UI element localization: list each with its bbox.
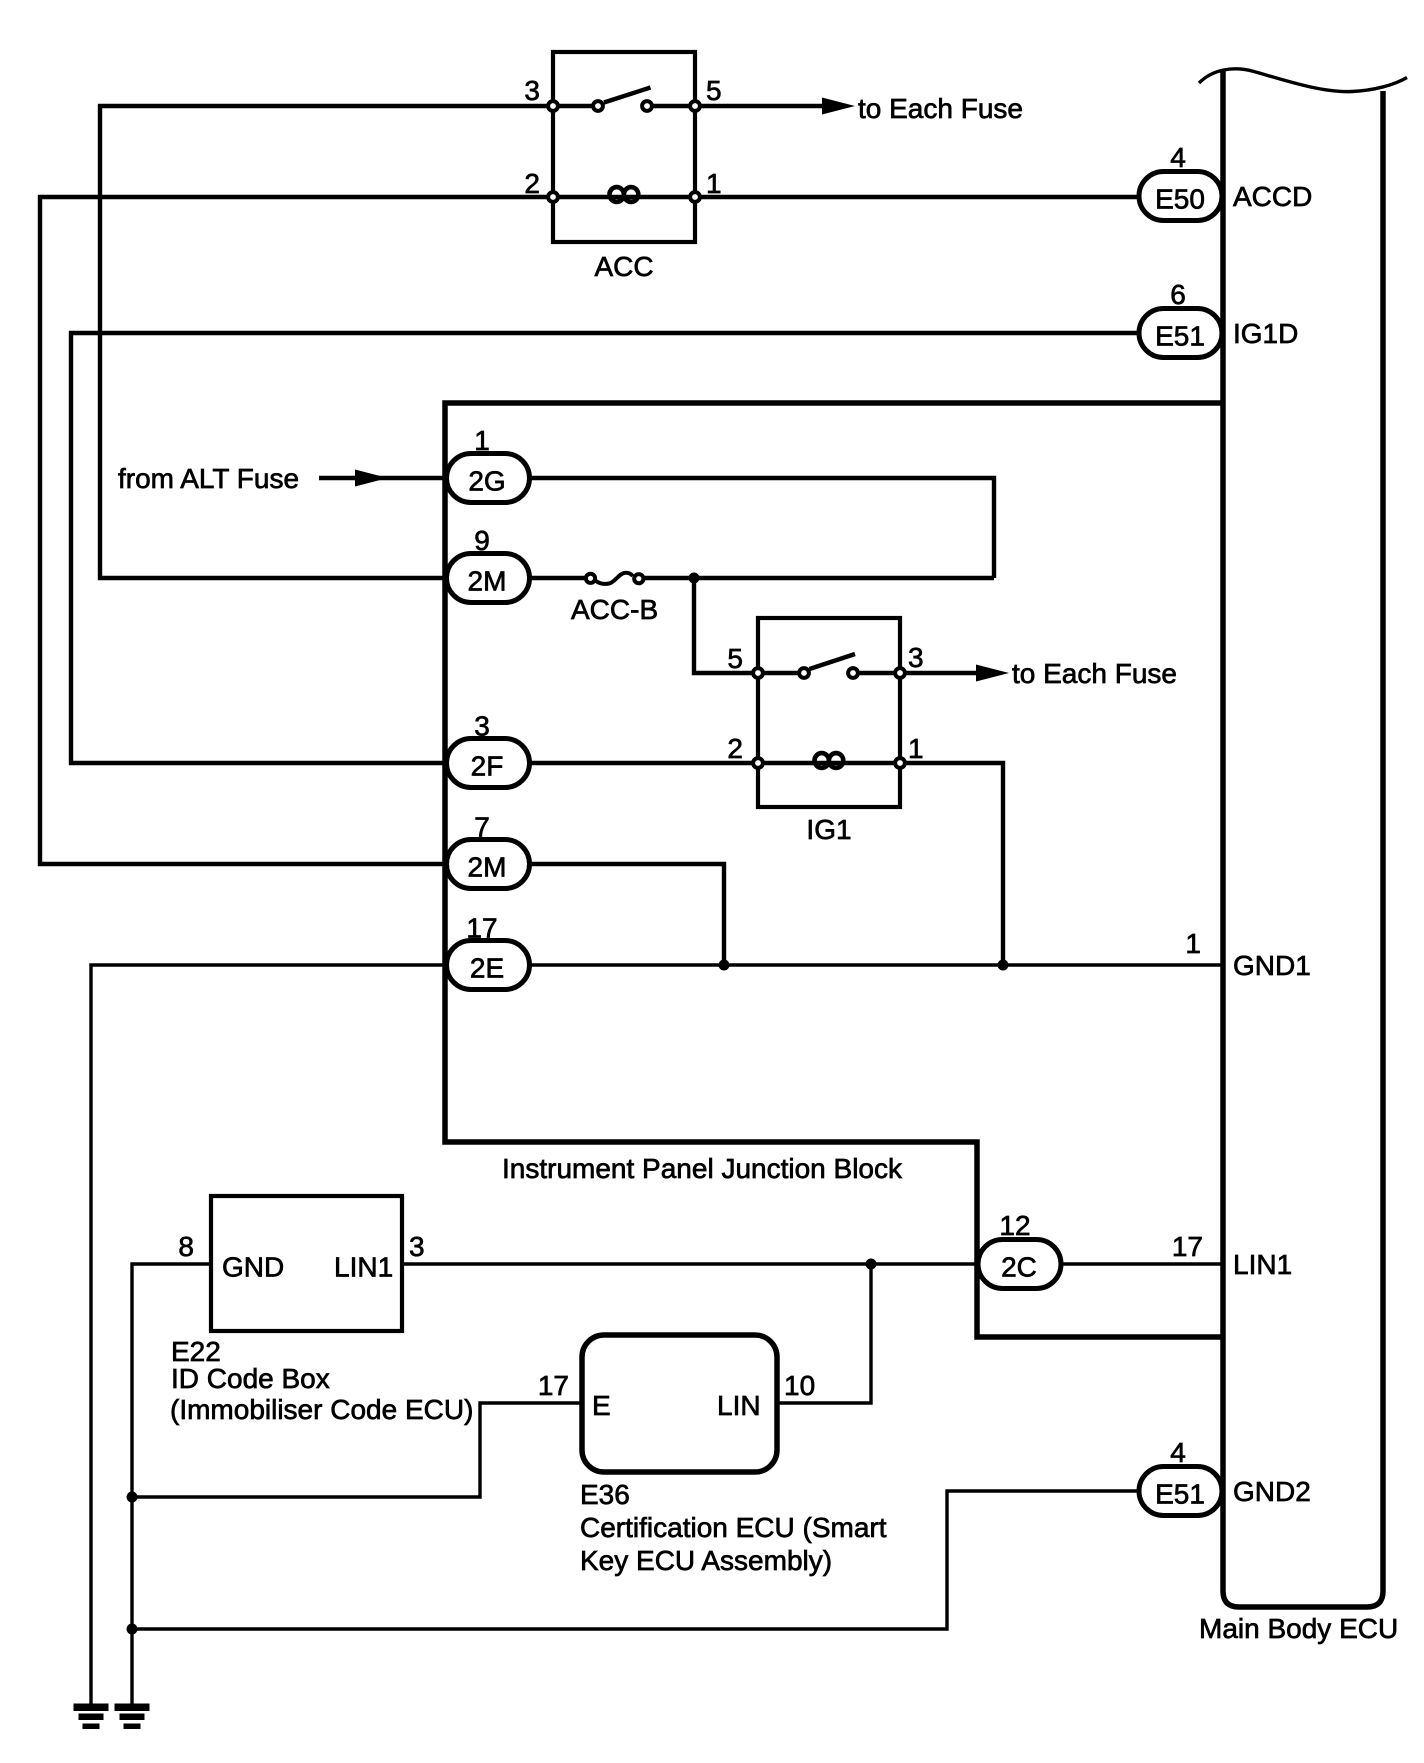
wire from ALT Fuse arrow line (319, 476, 449, 480)
svg-text:Certification ECU (Smart: Certification ECU (Smart (580, 1512, 887, 1543)
svg-text:10: 10 (784, 1370, 815, 1401)
connector 2C (978, 1240, 1061, 1289)
switch ACC blade (604, 88, 651, 103)
svg-text:4: 4 (1170, 1437, 1186, 1468)
wire GND2 from E51 to ground (132, 1491, 1141, 1629)
svg-text:IG1: IG1 (806, 814, 851, 845)
svg-text:LIN: LIN (717, 1390, 761, 1421)
svg-text:ACC-B: ACC-B (571, 594, 658, 625)
wire IG1 pin3 to Each Fuse arrow line (900, 671, 978, 675)
arrowhead from ALT Fuse (355, 470, 388, 487)
connector 2M pin7 (447, 840, 530, 889)
svg-text:2G: 2G (468, 466, 505, 497)
svg-text:12: 12 (999, 1210, 1030, 1241)
switch IG1 contacts (799, 668, 809, 678)
relay coil IG1 (815, 753, 844, 760)
connector 2F (447, 739, 530, 788)
svg-text:17: 17 (1172, 1231, 1203, 1262)
wire ACC pin3 to contact (553, 104, 598, 108)
svg-text:9: 9 (474, 525, 490, 556)
wire 2M pin7 down to GND1 line (527, 864, 724, 965)
svg-text:GND1: GND1 (1233, 950, 1311, 981)
junction dot gnd2 branch (127, 1624, 138, 1635)
wire IG1 pin2 to pin1 through coil (758, 761, 900, 765)
svg-text:8: 8 (178, 1231, 194, 1262)
connector 2M pin9 (447, 554, 530, 603)
svg-text:6: 6 (1170, 279, 1186, 310)
junction dot IG1 ground (998, 960, 1009, 971)
svg-text:LIN1: LIN1 (1233, 1249, 1292, 1280)
wire 2E to ECU GND1 (527, 963, 1223, 966)
svg-text:1: 1 (474, 425, 490, 456)
switch ACC contacts (593, 101, 603, 111)
svg-text:2M: 2M (468, 852, 507, 883)
svg-text:3: 3 (474, 711, 490, 742)
svg-text:5: 5 (706, 75, 722, 106)
svg-text:5: 5 (727, 643, 743, 674)
svg-text:GND2: GND2 (1233, 1476, 1311, 1507)
ECU E22 box (211, 1196, 402, 1331)
Main Body ECU torn-edge wavy top (1199, 69, 1407, 92)
svg-text:Key ECU Assembly): Key ECU Assembly) (580, 1545, 832, 1576)
svg-text:from ALT Fuse: from ALT Fuse (118, 463, 299, 494)
wire 2E to ground (left) (91, 965, 449, 1706)
svg-text:2F: 2F (471, 751, 504, 782)
svg-text:7: 7 (474, 812, 490, 843)
connector 2G (447, 454, 530, 503)
connector E51 GND2 (1139, 1467, 1222, 1516)
ground symbol left (74, 1704, 109, 1730)
svg-text:3: 3 (409, 1231, 425, 1262)
wire 2M pin9 through ACC-B fuse (527, 576, 586, 580)
switch ACC box (553, 52, 695, 242)
wire E51 IG1D to 2F pin3 (71, 333, 1141, 763)
wire ACC pin1 to E50 ACCD (697, 195, 1141, 199)
junction dot 2M7 ground (719, 960, 730, 971)
connector 2E (447, 941, 530, 990)
svg-text:2: 2 (727, 733, 743, 764)
svg-text:to Each Fuse: to Each Fuse (1012, 658, 1177, 689)
wire ACC contact to pin5 (647, 104, 695, 108)
svg-text:(Immobiliser Code ECU): (Immobiliser Code ECU) (170, 1394, 473, 1425)
svg-text:2M: 2M (468, 566, 507, 597)
svg-text:17: 17 (538, 1370, 569, 1401)
svg-text:LIN1: LIN1 (334, 1252, 393, 1283)
svg-text:3: 3 (908, 642, 924, 673)
svg-text:2E: 2E (470, 953, 504, 984)
svg-text:ACC: ACC (594, 251, 653, 282)
wire IG1 pin2 to 2F (527, 761, 758, 765)
junction dot ACC-B output (689, 573, 700, 584)
svg-text:1: 1 (908, 733, 924, 764)
arrowhead to Each Fuse (top) (822, 98, 855, 115)
svg-text:Main Body ECU: Main Body ECU (1199, 1613, 1398, 1644)
connector E51 IG1D (1139, 309, 1222, 358)
wire LIN branch down to E36 LIN (777, 1264, 871, 1403)
junction dot LIN branch (866, 1259, 877, 1270)
switch ACC contact pins (548, 101, 558, 111)
svg-text:E51: E51 (1155, 1479, 1205, 1510)
svg-text:4: 4 (1170, 142, 1186, 173)
wire junction to IG1 pin5 (694, 578, 758, 673)
svg-text:E51: E51 (1155, 321, 1205, 352)
svg-text:1: 1 (1185, 928, 1201, 959)
svg-text:IG1D: IG1D (1233, 318, 1298, 349)
switch IG1 box (758, 618, 900, 807)
svg-text:3: 3 (524, 75, 540, 106)
wire 2C to ECU LIN1 (1061, 1262, 1223, 1265)
relay coil ACC (610, 187, 639, 194)
wire ACC pin5 to Each Fuse arrow line (697, 104, 824, 108)
svg-text:E50: E50 (1155, 184, 1205, 215)
wire E22 LIN1 to 2C (402, 1262, 980, 1265)
wire IG1 pin5 to contact (758, 671, 804, 675)
svg-text:E: E (592, 1390, 611, 1421)
svg-text:1: 1 (706, 168, 722, 199)
wire ACC pin2 to 2M pin7 (40, 197, 553, 864)
svg-text:ACCD: ACCD (1233, 181, 1312, 212)
arrowhead to Each Fuse (IG1) (976, 665, 1009, 682)
wire E22 GND to ground (132, 1264, 211, 1706)
svg-text:Instrument Panel Junction Bloc: Instrument Panel Junction Block (502, 1153, 903, 1184)
wire 2G to ACC-B line (inside block) (527, 478, 994, 578)
wire ACC pin3 to 2M pin9 (100, 106, 553, 578)
wire ACC pin2 to pin1 through coil (553, 195, 695, 199)
wire IG1 contact to pin3 (853, 671, 900, 675)
svg-text:17: 17 (466, 913, 497, 944)
wire E36 E pin17 to ground (132, 1403, 582, 1497)
svg-text:2: 2 (524, 168, 540, 199)
wire IG1 pin1 down to GND1 line (900, 763, 1003, 965)
Instrument Panel Junction Block outline (445, 403, 1223, 1337)
svg-text:GND: GND (222, 1252, 284, 1283)
junction dot E22 gnd / E36 (127, 1492, 138, 1503)
fuse ACC-B (586, 574, 595, 583)
svg-text:to Each Fuse: to Each Fuse (858, 93, 1023, 124)
switch IG1 contact pins (753, 668, 763, 678)
svg-text:E36: E36 (580, 1479, 630, 1510)
ECU E36 box (582, 1335, 777, 1472)
svg-text:ID Code Box: ID Code Box (171, 1363, 330, 1394)
svg-text:2C: 2C (1001, 1252, 1037, 1283)
switch IG1 blade (810, 654, 856, 669)
ground symbol right (115, 1704, 150, 1730)
connector E50 ACCD (1139, 172, 1222, 221)
Main Body ECU box (1223, 69, 1383, 1607)
